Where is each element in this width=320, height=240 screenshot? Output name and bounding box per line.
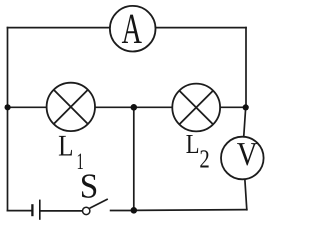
wire middle vertical branch [133,107,135,210]
node middle junction between L1 and L2 [131,104,138,111]
svg-text:L: L [186,128,200,159]
wire right side vertical (top corner to middle node) [245,28,247,108]
label L1 [58,130,84,176]
wire battery to switch [41,210,83,212]
label L2 [186,128,210,174]
ammeter A [110,6,156,53]
svg-text:2: 2 [199,145,209,174]
wire switch to middle node [111,210,134,212]
svg-text:S: S [80,167,98,206]
voltmeter V [221,136,264,179]
wire left side vertical [7,28,9,211]
svg-text:L: L [58,130,73,163]
wire top (left corner to right corner through ammeter) [8,27,247,29]
node right-middle junction [243,104,249,110]
wire voltmeter branch upper [242,107,245,158]
switch S [83,199,108,215]
lamp L1 [47,83,95,131]
svg-text:A: A [122,6,142,53]
battery [32,200,39,220]
wire bottom left (left corner to battery) [8,210,32,212]
wire bottom right (middle node to bottom-right corner) [134,209,247,212]
lamp L2 [172,84,220,132]
svg-text:V: V [237,136,258,173]
wire voltmeter branch lower [244,158,247,210]
node bottom junction [131,207,138,214]
node left-middle junction [5,104,11,110]
wire middle row horizontal (through L1 and L2) [8,106,246,108]
